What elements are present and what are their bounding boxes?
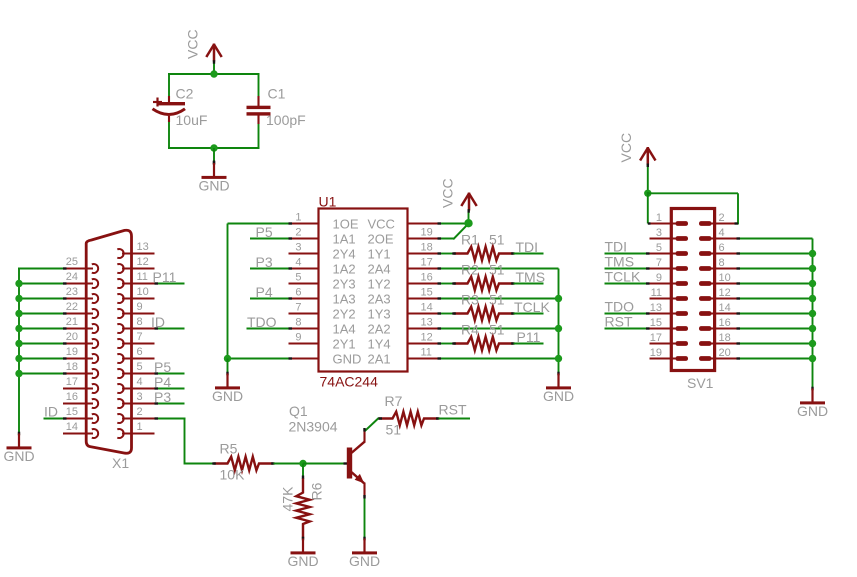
svg-text:TCLK: TCLK xyxy=(605,269,641,285)
wire tap X1 pin 21 to bus xyxy=(18,328,63,330)
junction SV1 bus xyxy=(809,355,816,362)
svg-text:P3: P3 xyxy=(154,389,171,405)
svg-text:17: 17 xyxy=(421,257,433,269)
svg-text:2Y1: 2Y1 xyxy=(333,337,356,352)
SV1 pin 8 (right) xyxy=(699,257,737,271)
svg-text:1Y1: 1Y1 xyxy=(368,247,391,262)
wire tap X1 pin 18 to bus xyxy=(18,373,63,375)
U1 left pin 9 (2Y1) xyxy=(289,332,356,352)
svg-text:13: 13 xyxy=(137,241,149,253)
ground symbol at (364.5,538.5) xyxy=(349,537,380,569)
SV1 pin 13 (left) xyxy=(650,302,689,316)
X1 pin 4 (right) xyxy=(117,376,154,393)
svg-text:14: 14 xyxy=(421,302,433,314)
wire left branch lower (from C2) xyxy=(168,121,170,150)
wire net P4 at U1 pin6 xyxy=(250,298,290,300)
wire SV1 pin 6 to bus xyxy=(737,253,813,255)
wire SV1 pin 8 to bus xyxy=(737,268,813,270)
U1 right pin 15 (2A3) xyxy=(368,287,438,307)
SV1 pin 20 (right) xyxy=(699,347,737,361)
U1 left pin 10 (GND) xyxy=(289,352,362,367)
svg-text:P5: P5 xyxy=(154,359,171,375)
resistor R3 (51) xyxy=(454,307,514,321)
U1 right pin 19 (2OE) xyxy=(368,227,438,247)
svg-text:GND: GND xyxy=(333,352,362,367)
wire net TDO at SV1 xyxy=(605,313,650,315)
wire U1 pin 13 to right bus xyxy=(438,328,559,330)
U1 right pin 14 (1Y3) xyxy=(368,302,438,322)
svg-text:TMS: TMS xyxy=(516,269,546,285)
svg-text:74AC244: 74AC244 xyxy=(320,374,379,390)
svg-text:8: 8 xyxy=(137,316,143,328)
svg-text:VCC: VCC xyxy=(439,178,455,208)
svg-text:R2: R2 xyxy=(461,262,479,278)
U1 left pin 4 (1A2) xyxy=(289,257,356,277)
U1 left pin 2 (1A1) xyxy=(289,227,356,247)
ground symbol at (227.5,373.5) xyxy=(212,372,243,404)
wire SV1 pin 18 to bus xyxy=(737,343,813,345)
wire SV1 pin 12 to bus xyxy=(737,298,813,300)
svg-text:10: 10 xyxy=(137,286,149,298)
junction on left bus xyxy=(15,325,22,332)
svg-text:GND: GND xyxy=(349,553,380,569)
junction SV1 bus xyxy=(809,325,816,332)
svg-text:100pF: 100pF xyxy=(266,112,306,128)
X1 pin 7 (right) xyxy=(117,331,154,348)
wire base node down to R6 xyxy=(302,464,304,479)
wire VCC stem to rail xyxy=(213,62,215,76)
svg-text:15: 15 xyxy=(421,287,433,299)
connector X1 body outline (DB25) xyxy=(86,230,131,453)
wire tap X1 pin 24 to bus xyxy=(18,283,63,285)
junction right bus xyxy=(555,325,562,332)
svg-text:TDO: TDO xyxy=(247,314,277,330)
svg-text:12: 12 xyxy=(421,332,433,344)
wire net P11 at X1 pin 11 xyxy=(155,283,185,285)
svg-text:4: 4 xyxy=(137,376,143,388)
ground symbol at (303,538.5) xyxy=(287,537,318,569)
junction SV1 vcc node xyxy=(644,190,651,197)
U1 left pin 8 (1A4) xyxy=(289,317,356,337)
U1 left pin 7 (2Y2) xyxy=(289,302,356,322)
svg-text:19: 19 xyxy=(421,227,433,239)
X1 pin 11 (right) xyxy=(117,271,154,288)
ground symbol at (812.5,388.5) xyxy=(797,387,828,419)
wire net P11 xyxy=(514,343,544,345)
svg-text:8: 8 xyxy=(295,317,301,329)
svg-text:2A3: 2A3 xyxy=(368,292,391,307)
svg-text:51: 51 xyxy=(489,322,505,338)
wire base node to Q1 base xyxy=(303,463,347,465)
junction on left bus xyxy=(15,280,22,287)
svg-text:9: 9 xyxy=(295,332,301,344)
svg-text:P3: P3 xyxy=(256,254,273,270)
U1 right pin 11 (2A1) xyxy=(368,347,438,367)
wire U1 pin to R4 xyxy=(438,343,454,345)
svg-text:TDO: TDO xyxy=(605,299,635,315)
SV1 pin 11 (left) xyxy=(650,287,689,301)
svg-text:11: 11 xyxy=(421,347,432,359)
SV1 pin 16 (right) xyxy=(699,317,737,331)
resistor R7 (51) xyxy=(379,412,439,426)
svg-text:C1: C1 xyxy=(268,86,286,102)
X1 pin 21 (left) xyxy=(63,316,98,333)
svg-text:P11: P11 xyxy=(153,269,177,285)
wire top rail of cap loop xyxy=(168,73,260,75)
junction SV1 bus xyxy=(809,280,816,287)
svg-text:1Y2: 1Y2 xyxy=(368,277,391,292)
svg-text:TDI: TDI xyxy=(516,239,539,255)
svg-text:TMS: TMS xyxy=(605,254,635,270)
svg-text:7: 7 xyxy=(656,257,662,269)
svg-text:1: 1 xyxy=(137,421,143,433)
svg-text:1Y3: 1Y3 xyxy=(368,307,391,322)
wire U1 pin to R1 xyxy=(438,253,454,255)
SV1 pin 17 (left) xyxy=(650,332,689,346)
wire VCC loop over to SV1 pin2 xyxy=(647,192,738,194)
U1 left pin 6 (1A3) xyxy=(289,287,356,307)
resistor R2 (51) xyxy=(454,277,514,291)
X1 pin 19 (left) xyxy=(63,346,98,363)
SV1 pin 3 (left) xyxy=(650,227,689,241)
svg-text:18: 18 xyxy=(421,242,433,254)
svg-text:12: 12 xyxy=(137,256,149,268)
wire tap X1 pin 25 to bus xyxy=(18,268,63,270)
wire net TCLK at SV1 xyxy=(605,283,650,285)
wire tap X1 pin 22 to bus xyxy=(18,313,63,315)
svg-text:1OE: 1OE xyxy=(333,217,359,232)
svg-text:RST: RST xyxy=(605,314,633,330)
svg-text:19: 19 xyxy=(66,346,78,358)
svg-text:15: 15 xyxy=(650,317,662,329)
svg-text:9: 9 xyxy=(137,301,143,313)
svg-text:18: 18 xyxy=(719,332,731,344)
svg-text:3: 3 xyxy=(295,242,301,254)
svg-text:6: 6 xyxy=(719,242,725,254)
X1 pin 13 (right) xyxy=(117,241,154,258)
ground symbol at (214,163) xyxy=(198,161,229,193)
resistor R5 (10K) xyxy=(214,457,274,471)
wire Q1 emitter down xyxy=(364,496,366,539)
wire net TCLK xyxy=(514,313,544,315)
svg-text:5: 5 xyxy=(137,361,143,373)
wire right branch upper (to C1) xyxy=(258,73,260,98)
svg-text:10uF: 10uF xyxy=(176,112,208,128)
svg-text:10: 10 xyxy=(719,272,731,284)
resistor R4 (51) xyxy=(454,337,514,351)
junction U1 gnd node xyxy=(224,355,231,362)
svg-text:4: 4 xyxy=(295,257,301,269)
svg-text:18: 18 xyxy=(66,361,78,373)
svg-text:2OE: 2OE xyxy=(368,232,394,247)
svg-text:5: 5 xyxy=(656,242,662,254)
capacitor C1 (100pF) xyxy=(247,96,271,124)
svg-text:GND: GND xyxy=(287,553,318,569)
wire tap X1 pin 19 to bus xyxy=(18,358,63,360)
wire U1 pin to R2 xyxy=(438,283,454,285)
X1 pin 20 (left) xyxy=(63,331,98,348)
wire net RST at SV1 xyxy=(605,328,650,330)
svg-text:13: 13 xyxy=(650,302,662,314)
svg-text:25: 25 xyxy=(66,256,78,268)
svg-text:2A1: 2A1 xyxy=(368,352,391,367)
svg-text:Q1: Q1 xyxy=(289,403,308,419)
wire U1 pin to R3 xyxy=(438,313,454,315)
svg-text:R5: R5 xyxy=(220,441,238,457)
svg-text:14: 14 xyxy=(66,421,78,433)
wire left branch upper (to C2) xyxy=(168,73,170,98)
svg-text:R7: R7 xyxy=(385,393,403,409)
X1 pin 15 (left) xyxy=(63,406,98,423)
wire net TDI at SV1 xyxy=(605,253,650,255)
wire bottom rail of cap loop xyxy=(168,147,260,149)
svg-text:3: 3 xyxy=(656,227,662,239)
U1 left pin 5 (2Y3) xyxy=(289,272,356,292)
junction on left bus xyxy=(15,370,22,377)
junction on left bus xyxy=(15,295,22,302)
wire U1 right ground bus vertical xyxy=(558,269,560,374)
X1 pin 10 (right) xyxy=(117,286,154,303)
svg-text:R6: R6 xyxy=(309,482,325,500)
U1 right pin 17 (2A4) xyxy=(368,257,438,277)
wire net P4 at X1 pin 4 xyxy=(155,388,185,390)
X1 pin 1 (right) xyxy=(117,421,154,438)
wire U1 pin 11 to right bus xyxy=(438,358,559,360)
wire VCC to U1 pin20 node xyxy=(468,211,470,224)
SV1 pin 6 (right) xyxy=(699,242,737,256)
svg-text:R1: R1 xyxy=(461,232,479,248)
power VCC symbol at (214,43.5) xyxy=(206,44,221,62)
X1 pin 18 (left) xyxy=(63,361,98,378)
junction base node xyxy=(299,460,306,467)
wire tap X1 pin 20 to bus xyxy=(18,343,63,345)
X1 pin 25 (left) xyxy=(63,256,98,273)
wire U1 pin 15 to right bus xyxy=(438,298,559,300)
wire R6 bottom to gnd xyxy=(302,524,304,539)
svg-text:8: 8 xyxy=(719,257,725,269)
U1 right pin 20 (VCC) xyxy=(368,217,438,232)
X1 pin 24 (left) xyxy=(63,271,98,288)
ground symbol at (558.5,373.5) xyxy=(543,372,574,404)
X1 pin 3 (right) xyxy=(117,391,154,408)
svg-text:16: 16 xyxy=(66,391,78,403)
svg-text:12: 12 xyxy=(719,287,731,299)
junction SV1 bus xyxy=(809,310,816,317)
svg-text:ID: ID xyxy=(44,404,58,420)
svg-text:VCC: VCC xyxy=(618,133,634,163)
svg-text:U1: U1 xyxy=(319,194,337,210)
svg-text:20: 20 xyxy=(719,347,731,359)
power VCC symbol at (647.8,147) xyxy=(640,147,655,165)
SV1 pin 18 (right) xyxy=(699,332,737,346)
capacitor C2 (10uF polarized) xyxy=(153,96,186,122)
wire net ID at X1 pin 8 xyxy=(155,328,185,330)
wire U1 pin1 (1OE) to GND net xyxy=(228,223,290,225)
svg-text:ID: ID xyxy=(151,314,165,330)
junction SV1 bus xyxy=(809,295,816,302)
svg-text:2A4: 2A4 xyxy=(368,262,391,277)
wire gnd stub xyxy=(227,359,229,374)
junction VCC node xyxy=(464,219,472,227)
ground symbol at (19,433.5) xyxy=(3,432,34,464)
svg-text:SV1: SV1 xyxy=(687,375,714,391)
SV1 pin 5 (left) xyxy=(650,242,689,256)
junction on left bus xyxy=(15,310,22,317)
svg-text:7: 7 xyxy=(295,302,301,314)
svg-text:C2: C2 xyxy=(176,86,194,102)
junction node at VCC rail xyxy=(210,70,217,77)
svg-text:2: 2 xyxy=(137,406,143,418)
X1 pin 6 (right) xyxy=(117,346,154,363)
U1 right pin 12 (1Y4) xyxy=(368,332,438,352)
svg-text:P4: P4 xyxy=(256,284,273,300)
X1 pin 9 (right) xyxy=(117,301,154,318)
wire net P5 at X1 pin 5 xyxy=(155,373,185,375)
svg-text:6: 6 xyxy=(295,287,301,299)
svg-text:TCLK: TCLK xyxy=(514,299,550,315)
svg-text:2N3904: 2N3904 xyxy=(289,419,338,435)
SV1 pin 12 (right) xyxy=(699,287,737,301)
wire net P3 at U1 pin4 xyxy=(250,268,290,270)
SV1 pin 19 (left) xyxy=(650,347,689,361)
transistor Q1 (2N3904 NPN) xyxy=(347,430,365,498)
svg-text:GND: GND xyxy=(543,388,574,404)
svg-text:5: 5 xyxy=(295,272,301,284)
svg-text:11: 11 xyxy=(651,287,662,299)
svg-text:2Y4: 2Y4 xyxy=(333,247,356,262)
svg-text:2: 2 xyxy=(719,212,725,224)
svg-text:VCC: VCC xyxy=(184,29,200,59)
wire net RST xyxy=(439,418,471,420)
wire net TMS at SV1 xyxy=(605,268,650,270)
wire SV1 pin 16 to bus xyxy=(737,328,813,330)
SV1 pin 7 (left) xyxy=(650,257,689,271)
X1 pin 16 (left) xyxy=(63,391,98,408)
svg-text:6: 6 xyxy=(137,346,143,358)
wire SV1 pin 4 to bus xyxy=(737,238,813,240)
svg-text:1Y4: 1Y4 xyxy=(368,337,391,352)
wire U1 pin20 (VCC) xyxy=(438,223,469,225)
wire X1 pin2 run to R5 xyxy=(185,463,214,465)
svg-text:P4: P4 xyxy=(154,374,171,390)
X1 pin 23 (left) xyxy=(63,286,98,303)
svg-text:51: 51 xyxy=(489,292,505,308)
wire net TDO at U1 pin8 xyxy=(247,328,290,330)
wire net P3 at X1 pin 3 xyxy=(155,403,185,405)
svg-text:17: 17 xyxy=(650,332,662,344)
X1 pin 2 (right) xyxy=(117,406,154,423)
svg-text:4: 4 xyxy=(719,227,725,239)
svg-text:P5: P5 xyxy=(256,224,273,240)
SV1 pin 9 (left) xyxy=(650,272,689,286)
svg-text:1A1: 1A1 xyxy=(333,232,356,247)
svg-text:16: 16 xyxy=(421,272,433,284)
resistor R6 (47K) vertical xyxy=(296,479,310,539)
svg-text:19: 19 xyxy=(650,347,662,359)
X1 pin 8 (right) xyxy=(117,316,154,333)
wire SV1 pin 20 to bus xyxy=(737,358,813,360)
wire U1 pin 17 to right bus xyxy=(438,268,559,270)
svg-text:24: 24 xyxy=(66,271,78,283)
svg-text:1A4: 1A4 xyxy=(333,322,356,337)
wire GND stub from bottom rail xyxy=(213,148,215,164)
svg-text:R3: R3 xyxy=(461,292,479,308)
svg-text:2: 2 xyxy=(295,227,301,239)
svg-text:14: 14 xyxy=(719,302,731,314)
svg-text:P11: P11 xyxy=(517,329,541,345)
svg-text:2Y3: 2Y3 xyxy=(333,277,356,292)
svg-text:1A2: 1A2 xyxy=(333,262,356,277)
wire net TDI xyxy=(514,253,544,255)
svg-text:1: 1 xyxy=(295,212,301,224)
wire VCC stem down to node xyxy=(647,165,649,193)
U1 left pin 1 (1OE) xyxy=(289,212,359,232)
junction SV1 bus xyxy=(809,250,816,257)
wire tap X1 pin 23 to bus xyxy=(18,298,63,300)
svg-text:X1: X1 xyxy=(112,455,129,471)
SV1 pin 2 (right) xyxy=(699,212,737,226)
svg-text:23: 23 xyxy=(66,286,78,298)
junction right bus xyxy=(555,295,562,302)
junction right bus xyxy=(555,355,562,362)
SV1 pin 14 (right) xyxy=(699,302,737,316)
X1 pin 5 (right) xyxy=(117,361,154,378)
SV1 pin 4 (right) xyxy=(699,227,737,241)
svg-text:GND: GND xyxy=(212,388,243,404)
wire Q1 collector diagonal up to R7 xyxy=(365,418,379,431)
svg-text:2Y2: 2Y2 xyxy=(333,307,356,322)
wire SV1 pin 10 to bus xyxy=(737,283,813,285)
svg-text:VCC: VCC xyxy=(368,217,395,232)
svg-text:7: 7 xyxy=(137,331,143,343)
svg-text:47K: 47K xyxy=(280,486,296,512)
U1 right pin 16 (1Y2) xyxy=(368,272,438,292)
svg-text:10K: 10K xyxy=(220,467,246,483)
wire net ID at X1 pin 15 (left) xyxy=(44,418,64,420)
junction on left bus xyxy=(15,355,22,362)
svg-text:TDI: TDI xyxy=(605,239,628,255)
power VCC symbol at (469,192.5) xyxy=(461,193,476,211)
svg-text:51: 51 xyxy=(386,422,402,438)
X1 pin 14 (left) xyxy=(63,421,98,438)
svg-text:2A2: 2A2 xyxy=(368,322,391,337)
svg-text:GND: GND xyxy=(198,178,229,194)
wire SV1 pin 14 to bus xyxy=(737,313,813,315)
SV1 pin 1 (left) xyxy=(650,212,689,226)
X1 pin 17 (left) xyxy=(63,376,98,393)
junction SV1 bus xyxy=(809,265,816,272)
IC U1 body xyxy=(319,209,408,372)
wire X1 pin 2 to base resistor (down) xyxy=(155,418,186,420)
SV1 pin 10 (right) xyxy=(699,272,737,286)
svg-text:9: 9 xyxy=(656,272,662,284)
wire U1 pin10 (GND) xyxy=(228,358,290,360)
junction on left bus xyxy=(15,340,22,347)
wire R5 to base node xyxy=(274,463,305,465)
svg-text:R4: R4 xyxy=(461,322,479,338)
resistor R1 (51) xyxy=(454,247,514,261)
svg-text:GND: GND xyxy=(797,403,828,419)
svg-text:16: 16 xyxy=(719,317,731,329)
svg-text:15: 15 xyxy=(66,406,78,418)
X1 pin 12 (right) xyxy=(117,256,154,273)
svg-text:22: 22 xyxy=(66,301,78,313)
svg-text:51: 51 xyxy=(489,232,505,248)
wire VCC node down to SV1 pin1 xyxy=(647,192,649,224)
junction SV1 bus xyxy=(809,340,816,347)
svg-text:20: 20 xyxy=(66,331,78,343)
svg-text:17: 17 xyxy=(66,376,78,388)
